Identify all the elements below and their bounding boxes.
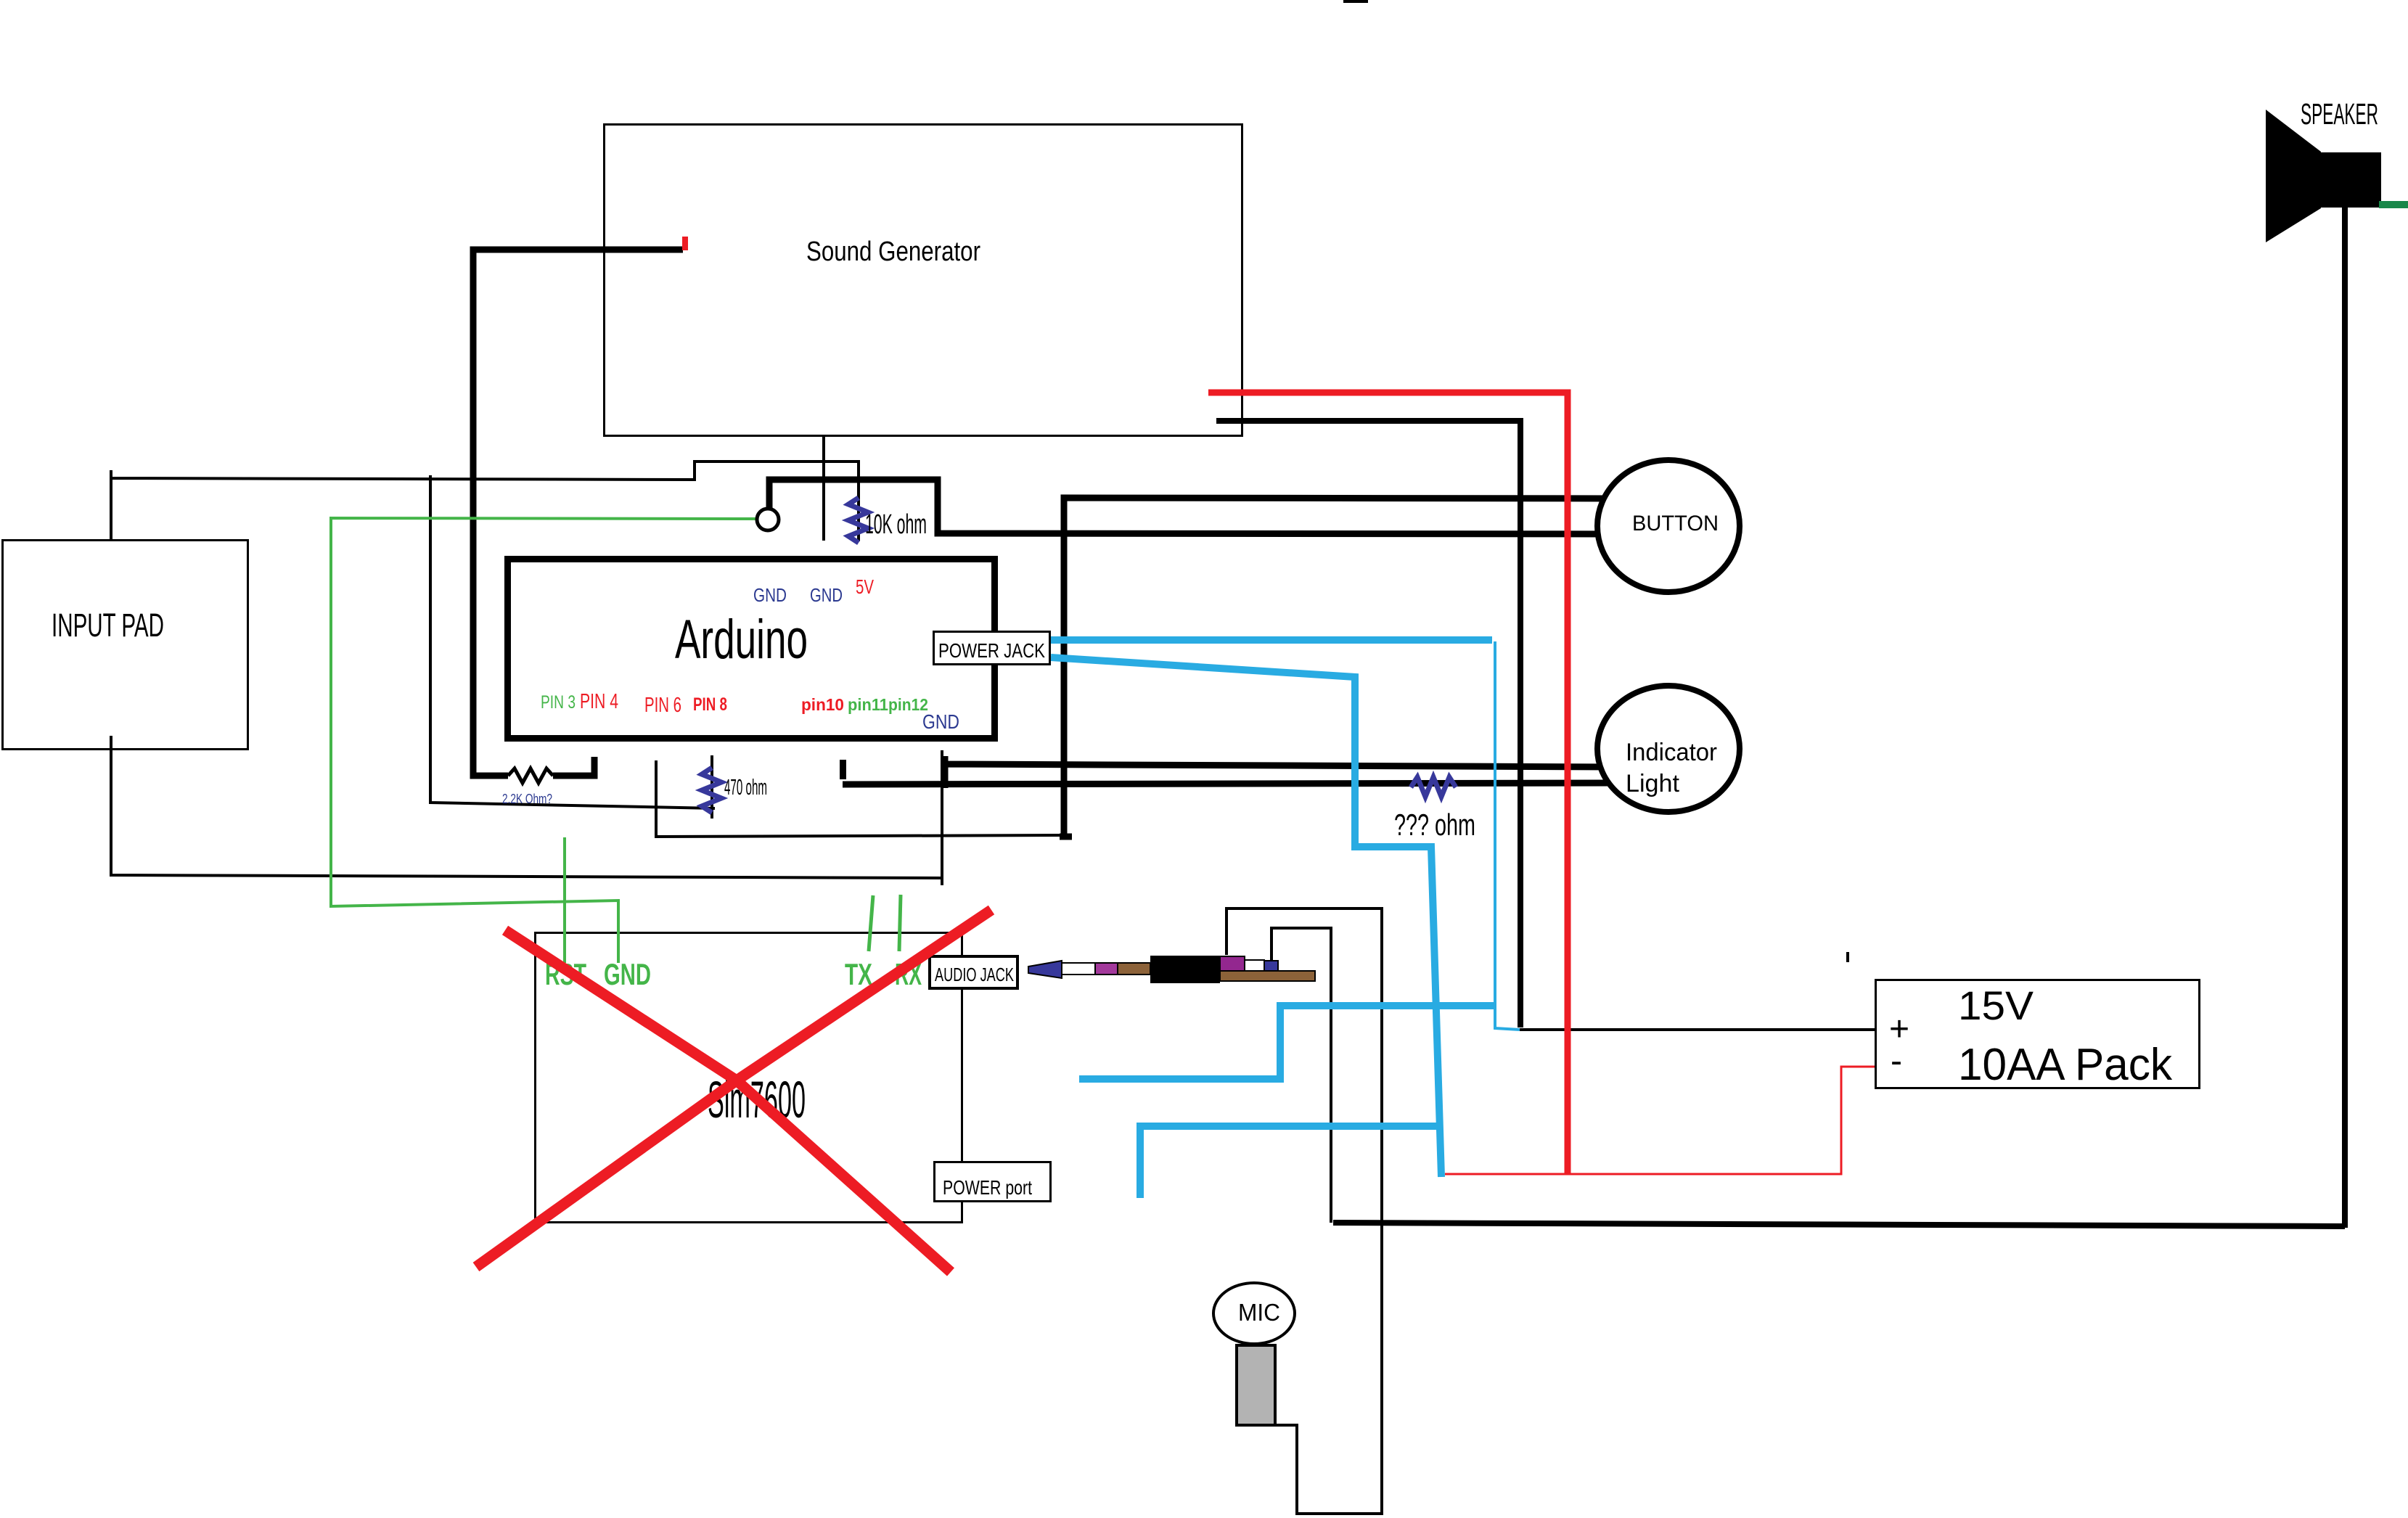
svg-text:PIN 6: PIN 6 xyxy=(644,694,681,717)
svg-text:10AA Pack: 10AA Pack xyxy=(1958,1040,2173,1090)
red X arm B xyxy=(476,910,991,1267)
svg-text:BUTTON: BUTTON xyxy=(1632,512,1719,536)
wire input pad top to 10K resistor xyxy=(111,461,859,541)
sim7600 box xyxy=(536,933,962,1223)
cyan wire middle segment xyxy=(1079,1006,1495,1079)
mic circle xyxy=(1213,1283,1295,1344)
red tick sound generator xyxy=(682,237,688,250)
svg-text:pin10: pin10 xyxy=(801,695,844,714)
red X arm A xyxy=(505,930,951,1272)
input pad box xyxy=(3,541,248,750)
circle node xyxy=(757,509,779,530)
audio plug tip navy xyxy=(1028,961,1062,978)
wire thick sound generator right to battery plus xyxy=(1216,421,1520,1027)
svg-text:Light: Light xyxy=(1626,770,1680,797)
svg-text:AUDIO JACK: AUDIO JACK xyxy=(935,964,1014,985)
audio plug purple block xyxy=(1220,956,1245,971)
stray tick mark xyxy=(1846,952,1849,962)
power jack box xyxy=(934,632,1050,665)
red thin wire to battery minus xyxy=(1445,1067,1875,1174)
green wire to sim RST xyxy=(563,837,566,963)
svg-text:??? ohm: ??? ohm xyxy=(1394,808,1475,842)
indicator light circle xyxy=(1597,686,1740,812)
resistor 470 zigzag xyxy=(702,768,721,813)
svg-text:470 ohm: 470 ohm xyxy=(724,774,767,800)
svg-text:GND: GND xyxy=(810,584,843,606)
svg-text:-: - xyxy=(1891,1042,1902,1080)
cyan wire lower left segment xyxy=(1140,1126,1440,1198)
cyan thin drop to battery plus wire xyxy=(1495,641,1520,1030)
wire branch to 470 resistor xyxy=(430,475,715,808)
resistor 2.2K zigzag xyxy=(508,768,553,783)
audio plug magenta segment xyxy=(1095,963,1118,975)
svg-text:15V: 15V xyxy=(1958,982,2034,1028)
wire thick upper indicator wire with GND stub xyxy=(945,756,1615,788)
green wire input pad to node and sim GND xyxy=(331,518,757,963)
audio plug brown segment xyxy=(1118,963,1150,975)
green slash RX xyxy=(899,895,901,951)
audio plug white block xyxy=(1245,960,1264,971)
svg-text:2.2K Ohm?: 2.2K Ohm? xyxy=(502,792,552,806)
svg-text:POWER port: POWER port xyxy=(943,1176,1032,1199)
wire thick upper button wire xyxy=(1060,498,1615,837)
arduino box xyxy=(508,559,995,739)
wire thick top to circle node and lower button wire xyxy=(769,480,1615,534)
svg-text:PIN 8: PIN 8 xyxy=(693,694,727,715)
mic body gray xyxy=(1237,1345,1275,1425)
svg-text:Indicator: Indicator xyxy=(1626,739,1717,766)
cyan wire power jack bottom long path xyxy=(1051,657,1441,1177)
resistor ??? zigzag xyxy=(1411,777,1456,797)
audio jack box xyxy=(930,956,1017,988)
audio plug white segment xyxy=(1062,963,1095,975)
top dash mark xyxy=(1343,0,1368,3)
wire thick bottom ground bus xyxy=(1333,1223,2345,1226)
button circle xyxy=(1597,460,1740,592)
svg-text:pin11: pin11 xyxy=(848,695,888,714)
svg-text:GND: GND xyxy=(922,710,959,733)
svg-text:PIN 4: PIN 4 xyxy=(580,690,618,713)
speaker horn xyxy=(2266,110,2321,242)
svg-text:Sound Generator: Sound Generator xyxy=(806,237,980,267)
wire thick lower indicator wire xyxy=(843,783,1615,784)
svg-text:PIN 3: PIN 3 xyxy=(541,692,576,713)
svg-text:GND: GND xyxy=(604,957,651,991)
wire audio jack to mic xyxy=(1226,908,1382,1514)
svg-text:GND: GND xyxy=(753,584,787,606)
audio plug black body xyxy=(1150,956,1220,983)
svg-text:5V: 5V xyxy=(856,575,874,598)
power port box xyxy=(935,1162,1051,1202)
resistor 10K zigzag xyxy=(848,498,868,543)
speaker green wire xyxy=(2379,201,2408,208)
wire thick from sound generator left with 2.2K resistor xyxy=(473,250,683,776)
cyan wire power jack top to battery plus xyxy=(1051,636,1492,644)
pin10 stub tick xyxy=(840,760,846,779)
wire pin6 down and right xyxy=(656,760,1062,837)
wire audio plug to ground bus xyxy=(1271,928,1331,1223)
sound generator box xyxy=(605,125,1242,436)
svg-text:MIC: MIC xyxy=(1238,1299,1280,1326)
wire speaker vertical xyxy=(2342,206,2348,1228)
audio plug navy block xyxy=(1264,961,1278,971)
audio plug brown bar xyxy=(1220,971,1315,981)
svg-text:10K ohm: 10K ohm xyxy=(865,509,927,540)
svg-text:SPEAKER: SPEAKER xyxy=(2301,97,2378,131)
green slash TX xyxy=(869,895,873,951)
wire sound generator bottom stub xyxy=(822,436,825,541)
red wire sound generator to battery minus xyxy=(1208,393,1568,1174)
wire battery plus xyxy=(1520,1028,1875,1031)
svg-text:INPUT PAD: INPUT PAD xyxy=(52,607,164,644)
svg-text:Arduino: Arduino xyxy=(675,609,808,670)
wire 470 resistor vertical xyxy=(710,755,713,819)
svg-text:POWER JACK: POWER JACK xyxy=(938,639,1045,662)
wire input pad bottom to pin10 xyxy=(111,736,942,885)
speaker box xyxy=(2321,152,2381,208)
battery box xyxy=(1876,980,2200,1088)
